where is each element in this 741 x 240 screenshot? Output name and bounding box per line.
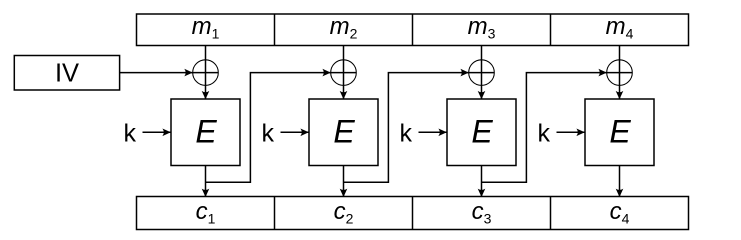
wire feedback c3 to X4 xyxy=(482,73,607,183)
block E4 xyxy=(585,99,654,166)
divider m3/m4 xyxy=(550,14,552,46)
block row m (message register) xyxy=(137,14,689,46)
svg-text:E: E xyxy=(195,114,217,150)
wire E1 to c1 xyxy=(205,166,207,198)
divider c1/c2 xyxy=(274,197,276,230)
wire E4 to c4 xyxy=(619,166,621,198)
block E3 xyxy=(447,99,516,166)
wire m1 to E1 (vertical through XOR) xyxy=(205,46,207,100)
divider m2/m3 xyxy=(412,14,414,46)
svg-text:E: E xyxy=(333,114,355,150)
wire m3 to E3 (vertical through XOR) xyxy=(481,46,483,100)
wire feedback c2 to X3 xyxy=(344,73,469,183)
svg-text:IV: IV xyxy=(55,60,79,88)
wire IV to X1 xyxy=(120,72,193,74)
svg-text:k: k xyxy=(124,120,137,148)
xor X3 xyxy=(469,60,495,86)
svg-text:E: E xyxy=(609,114,631,150)
wire m2 to E2 (vertical through XOR) xyxy=(343,46,345,100)
wire E3 to c3 xyxy=(481,166,483,198)
divider m1/m2 xyxy=(274,14,276,46)
wire E2 to c2 xyxy=(343,166,345,198)
svg-text:k: k xyxy=(262,120,275,148)
block E2 xyxy=(309,99,378,166)
xor X4 xyxy=(607,60,633,86)
svg-text:E: E xyxy=(471,114,493,150)
block E1 xyxy=(171,99,240,166)
divider c3/c4 xyxy=(550,197,552,230)
wire m4 to E4 (vertical through XOR) xyxy=(619,46,621,100)
svg-text:k: k xyxy=(400,120,413,148)
divider c2/c3 xyxy=(412,197,414,230)
wire k1 to E1 xyxy=(143,131,171,133)
svg-text:k: k xyxy=(538,120,551,148)
xor X2 xyxy=(331,60,357,86)
block IV xyxy=(14,56,119,91)
wire k2 to E2 xyxy=(281,131,309,133)
xor X1 xyxy=(193,60,219,86)
wire feedback c1 to X2 xyxy=(206,73,331,183)
wire k3 to E3 xyxy=(419,131,447,133)
wire k4 to E4 xyxy=(557,131,585,133)
block row c (ciphertext register) xyxy=(137,197,689,230)
